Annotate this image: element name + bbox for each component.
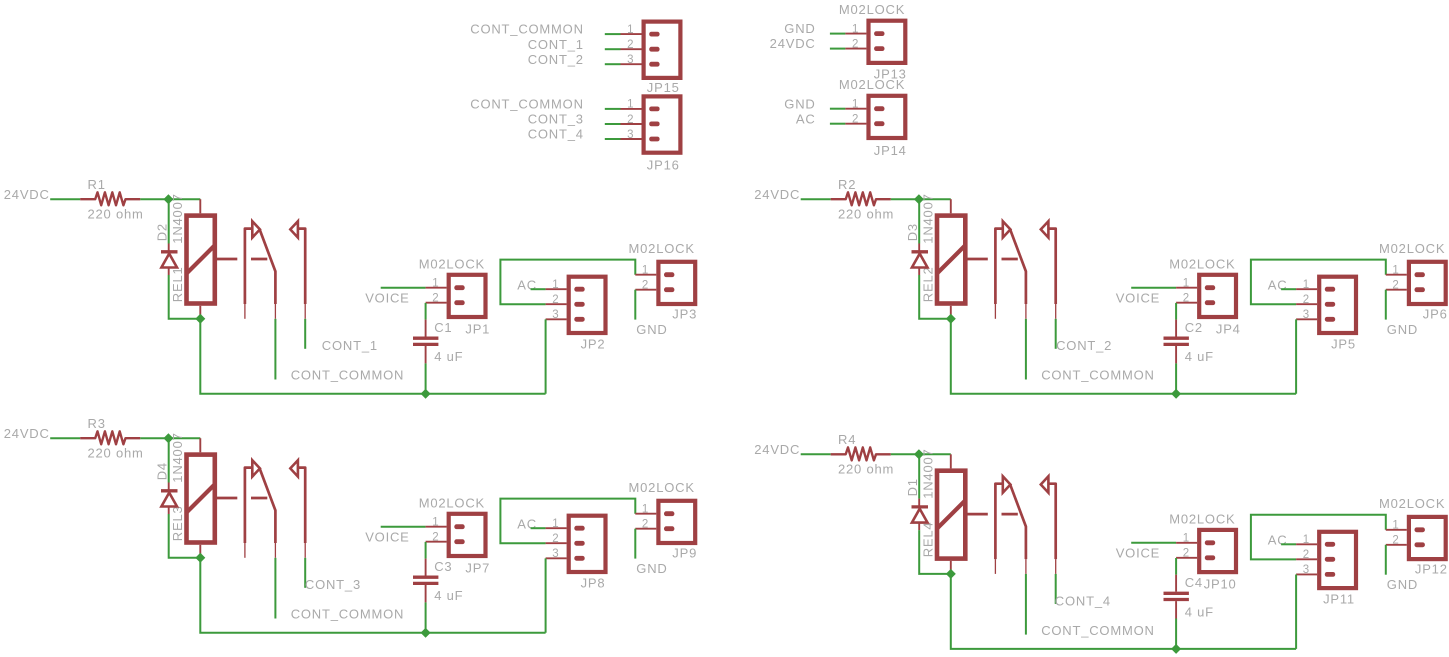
- relay REL4 coil diagonal: [937, 500, 965, 528]
- relay REL1 contact pin stub 1: [244, 304, 246, 319]
- svg-text:CONT_3: CONT_3: [305, 577, 361, 592]
- connector JP13 pin 1 lead: [845, 33, 866, 35]
- relay REL4 contact 1 arrow: [1003, 476, 1011, 492]
- svg-text:1: 1: [552, 279, 559, 291]
- relay REL2 coil pin 2: [950, 306, 952, 319]
- svg-text:2: 2: [1303, 294, 1310, 306]
- svg-text:2: 2: [1392, 280, 1399, 292]
- svg-text:REL4: REL4: [920, 522, 935, 558]
- svg-text:CONT_COMMON: CONT_COMMON: [1041, 368, 1155, 383]
- svg-text:2: 2: [642, 280, 649, 292]
- wire coil bottom to common bus: [951, 574, 1296, 649]
- wire resistor to node: [891, 198, 919, 200]
- wire diode to coil bottom: [169, 275, 201, 319]
- relay REL3 contact pin stub 3: [304, 543, 306, 558]
- wire coil bottom to common bus: [200, 319, 545, 394]
- connector JP1 pin 1 contact: [454, 285, 464, 290]
- svg-text:220 ohm: 220 ohm: [88, 206, 144, 221]
- connector JP13 pin 1 contact: [874, 31, 884, 36]
- connector JP14 pin 1 lead: [845, 108, 866, 110]
- svg-text:4 uF: 4 uF: [1185, 604, 1214, 619]
- relay REL2 contact 1 arm: [1010, 230, 1026, 304]
- connector JP4 pin 2 lead: [1176, 302, 1197, 304]
- node junction at R1/coil/diode: [163, 194, 173, 204]
- relay REL3 coil pin 2: [199, 545, 201, 558]
- relay REL4 contact pin stub 1: [994, 559, 996, 574]
- svg-text:JP16: JP16: [647, 157, 680, 172]
- wire JP7 pin 2 to capacitor C3: [425, 542, 427, 559]
- connector JP1 pin 2 contact: [454, 300, 464, 305]
- wire CONT_1 to JP15 pin 2: [605, 48, 621, 50]
- connector JP6 pin 1 contact: [1415, 272, 1425, 277]
- svg-text:2: 2: [852, 38, 859, 50]
- connector JP15 pin 3 contact: [649, 62, 659, 67]
- relay REL3 coil diagonal: [187, 484, 215, 512]
- wire VOICE to JP1 pin 1: [381, 287, 426, 289]
- junction at coil bottom: [195, 553, 205, 563]
- relay REL3 contact 1 arm: [260, 469, 276, 543]
- relay REL3 contact 1 arrow: [252, 460, 260, 476]
- diode D1 triangle: [912, 509, 928, 523]
- svg-text:GND: GND: [1387, 577, 1418, 592]
- connector JP9 pin 1 contact: [664, 511, 674, 516]
- connector JP9 pin 1 lead: [635, 513, 656, 515]
- connector JP13 pin 2 contact: [874, 46, 884, 51]
- connector JP16 pin 3 contact: [649, 137, 659, 142]
- wire GND to JP14 pin 1: [830, 108, 846, 110]
- capacitor C4 plate 1: [1164, 592, 1189, 595]
- wire CONT_COMMON to JP15 pin 1: [605, 33, 621, 35]
- connector JP2 pin 3 contact: [574, 317, 584, 322]
- svg-text:CONT_COMMON: CONT_COMMON: [291, 368, 405, 383]
- wire 24VDC to JP13 pin 2: [830, 48, 846, 50]
- connector JP10 body: [1199, 530, 1236, 572]
- wire net CONT_2 stub: [1055, 319, 1057, 349]
- diode D3 anode pin: [918, 268, 920, 276]
- svg-text:2: 2: [852, 114, 859, 126]
- relay REL1 contact 1 arrow: [252, 221, 260, 237]
- svg-text:2: 2: [432, 532, 439, 544]
- svg-text:220 ohm: 220 ohm: [88, 445, 144, 460]
- wire CONT_2 to JP15 pin 3: [605, 63, 621, 65]
- node junction at R4/coil/diode: [914, 449, 924, 459]
- svg-text:CONT_4: CONT_4: [1055, 593, 1111, 608]
- diode D2 cathode pin: [168, 244, 170, 252]
- junction capacitor C3 at bus: [421, 628, 431, 638]
- connector JP5 pin 3 lead: [1296, 318, 1317, 320]
- relay REL1 actuation dash 2: [251, 258, 267, 261]
- relay REL2 coil pin 1: [950, 199, 952, 213]
- svg-text:4 uF: 4 uF: [1185, 349, 1214, 364]
- svg-text:24VDC: 24VDC: [4, 426, 50, 441]
- connector JP11 pin 2 lead: [1296, 558, 1317, 560]
- relay REL3 contact pin stub 2: [274, 543, 276, 558]
- connector JP11 pin 3 contact: [1325, 572, 1335, 577]
- svg-text:24VDC: 24VDC: [754, 187, 800, 202]
- wire GND to JP13 pin 1: [830, 33, 846, 35]
- svg-text:1: 1: [552, 518, 559, 530]
- capacitor C3 plate 1: [413, 576, 438, 579]
- resistor R1: [80, 192, 140, 205]
- connector JP2 pin 2 contact: [574, 302, 584, 307]
- svg-text:JP15: JP15: [647, 80, 680, 95]
- relay REL3 contact pin stub 1: [244, 543, 246, 558]
- connector JP8 body: [569, 516, 606, 572]
- svg-text:CONT_COMMON: CONT_COMMON: [470, 22, 584, 37]
- svg-text:C2: C2: [1185, 320, 1203, 335]
- wire capacitor C3 to bus: [425, 602, 427, 632]
- svg-text:M02LOCK: M02LOCK: [629, 241, 695, 256]
- svg-text:CONT_1: CONT_1: [322, 338, 378, 353]
- relay REL2 contact 2 fixed: [1048, 229, 1056, 304]
- svg-text:3: 3: [627, 129, 634, 141]
- svg-text:1: 1: [432, 278, 439, 290]
- svg-text:JP14: JP14: [874, 143, 907, 158]
- relay REL4 coil pin 2: [950, 561, 952, 574]
- diode D2 triangle: [161, 254, 177, 268]
- wire 24VDC to resistor: [50, 198, 80, 200]
- svg-text:CONT_1: CONT_1: [528, 37, 584, 52]
- wire GND stub from JP6 pin 2: [1385, 290, 1387, 320]
- wire node to coil pin: [168, 437, 200, 439]
- svg-text:R3: R3: [88, 416, 106, 431]
- relay REL1 contact pin stub 3: [304, 304, 306, 319]
- svg-text:220 ohm: 220 ohm: [838, 206, 894, 221]
- capacitor C1 pin 2: [425, 346, 427, 363]
- wire bus up to JP8 pin 3: [545, 558, 547, 632]
- junction capacitor C4 at bus: [1171, 644, 1181, 654]
- svg-text:JP2: JP2: [581, 337, 606, 352]
- svg-text:CONT_COMMON: CONT_COMMON: [1041, 623, 1155, 638]
- connector JP2 pin 2 lead: [546, 303, 567, 305]
- svg-text:JP7: JP7: [465, 560, 490, 575]
- svg-text:2: 2: [1303, 549, 1310, 561]
- svg-text:JP3: JP3: [672, 306, 697, 321]
- relay REL1 actuation dash 1: [217, 258, 238, 261]
- diode D1 cathode pin: [918, 499, 920, 507]
- svg-text:R4: R4: [838, 432, 856, 447]
- junction capacitor C2 at bus: [1171, 389, 1181, 399]
- svg-text:1: 1: [1183, 533, 1190, 545]
- connector JP12 pin 1 lead: [1386, 529, 1407, 531]
- connector JP1 pin 2 lead: [426, 302, 447, 304]
- connector JP12 body: [1409, 517, 1446, 559]
- node junction at R3/coil/diode: [163, 433, 173, 443]
- relay REL2 contact pin stub 2: [1025, 304, 1027, 319]
- wire net CONT_4 stub: [1055, 574, 1057, 604]
- capacitor C1 plate 2: [413, 343, 438, 346]
- diode D2 cathode bar: [161, 250, 178, 253]
- wire net CONT_COMMON stub (REL2): [1025, 319, 1027, 380]
- wire capacitor C4 to bus: [1175, 619, 1177, 649]
- wire coil bottom to common bus: [200, 558, 545, 633]
- wire node to coil pin: [168, 198, 200, 200]
- svg-text:VOICE: VOICE: [365, 290, 409, 305]
- capacitor C4 pin 1: [1175, 575, 1177, 592]
- relay REL4 actuation dash 1: [967, 513, 988, 516]
- svg-text:JP9: JP9: [672, 545, 697, 560]
- relay REL1 contact pin stub 2: [274, 304, 276, 319]
- svg-text:JP1: JP1: [465, 321, 490, 336]
- connector JP4 pin 1 contact: [1205, 285, 1215, 290]
- svg-text:D3: D3: [905, 223, 920, 241]
- wire diode to coil bottom: [919, 530, 951, 574]
- wire AC to JP14 pin 2: [830, 123, 846, 125]
- relay REL2 contact 1 arrow: [1003, 221, 1011, 237]
- diode D3 cathode pin: [918, 244, 920, 252]
- svg-text:VOICE: VOICE: [365, 529, 409, 544]
- svg-text:2: 2: [627, 114, 634, 126]
- svg-text:2: 2: [1183, 548, 1190, 560]
- svg-text:REL1: REL1: [170, 266, 185, 302]
- svg-text:3: 3: [552, 548, 559, 560]
- relay REL2 actuation dash 1: [967, 258, 988, 261]
- svg-text:CONT_2: CONT_2: [528, 52, 584, 67]
- capacitor C1 plate 1: [413, 337, 438, 340]
- svg-text:JP5: JP5: [1331, 337, 1356, 352]
- relay REL4 contact pin stub 2: [1025, 559, 1027, 574]
- connector JP1 pin 1 lead: [426, 287, 447, 289]
- svg-text:1: 1: [642, 265, 649, 277]
- svg-text:1N4007: 1N4007: [920, 193, 935, 243]
- resistor R3: [80, 431, 140, 444]
- relay REL1 contact 1 arm: [260, 230, 276, 304]
- connector JP14 pin 2 lead: [845, 123, 866, 125]
- connector JP13 body: [869, 21, 906, 63]
- svg-text:JP11: JP11: [1323, 592, 1355, 607]
- relay REL4 coil body: [937, 471, 965, 559]
- connector JP5 pin 2 contact: [1325, 302, 1335, 307]
- svg-text:M02LOCK: M02LOCK: [419, 257, 485, 272]
- relay REL1 coil diagonal: [187, 245, 215, 273]
- diode D4 triangle: [161, 493, 177, 507]
- relay REL4 coil pin 1: [950, 454, 952, 468]
- diode D3 cathode bar: [912, 250, 929, 253]
- svg-text:3: 3: [1303, 564, 1310, 576]
- svg-text:JP10: JP10: [1204, 577, 1237, 592]
- svg-text:JP6: JP6: [1423, 306, 1448, 321]
- relay REL3 coil body: [187, 455, 215, 543]
- wire capacitor C1 to bus: [425, 363, 427, 393]
- wire node to diode D1: [918, 454, 920, 498]
- connector JP11 pin 1 contact: [1325, 542, 1335, 547]
- connector JP2 pin 1 contact: [574, 287, 584, 292]
- svg-text:1: 1: [1303, 279, 1310, 291]
- wire node to diode D3: [918, 199, 920, 243]
- connector JP6 body: [1409, 262, 1446, 304]
- connector JP4 body: [1199, 275, 1236, 317]
- connector JP10 pin 1 lead: [1176, 542, 1197, 544]
- wire net CONT_1 stub: [304, 319, 306, 349]
- capacitor C2 pin 2: [1175, 346, 1177, 363]
- connector JP13 pin 2 lead: [845, 48, 866, 50]
- svg-text:CONT_3: CONT_3: [528, 112, 584, 127]
- junction capacitor C1 at bus: [421, 389, 431, 399]
- connector JP16 pin 2 lead: [621, 123, 642, 125]
- relay REL2 contact pin stub 3: [1055, 304, 1057, 319]
- capacitor C2 plate 2: [1164, 343, 1189, 346]
- diode D4 cathode bar: [161, 489, 178, 492]
- relay REL3 contact 2 fixed: [298, 468, 306, 543]
- svg-text:1: 1: [432, 517, 439, 529]
- wire resistor to node: [140, 198, 168, 200]
- connector JP8 pin 1 lead: [546, 527, 567, 529]
- diode D4 anode pin: [168, 507, 170, 515]
- wire JP10 pin 2 to capacitor C4: [1175, 558, 1177, 575]
- connector JP1 body: [449, 275, 486, 317]
- wire 24VDC to resistor: [801, 198, 831, 200]
- connector JP14 pin 1 contact: [874, 106, 884, 111]
- relay REL3 coil pin 1: [199, 438, 201, 452]
- svg-text:M02LOCK: M02LOCK: [1379, 496, 1445, 511]
- connector JP15 pin 3 lead: [621, 63, 642, 65]
- connector JP4 pin 1 lead: [1176, 287, 1197, 289]
- connector JP10 pin 1 contact: [1205, 540, 1215, 545]
- diode D4 cathode pin: [168, 483, 170, 491]
- svg-text:D1: D1: [905, 478, 920, 496]
- relay REL2 contact 2 arrow: [1041, 221, 1049, 237]
- wire capacitor C2 to bus: [1175, 363, 1177, 393]
- wire coil bottom to common bus: [951, 319, 1296, 394]
- wire CONT_COMMON to JP16 pin 1: [605, 108, 621, 110]
- capacitor C3 pin 2: [425, 585, 427, 602]
- svg-text:M02LOCK: M02LOCK: [629, 480, 695, 495]
- connector JP16 pin 1 lead: [621, 108, 642, 110]
- connector JP5 pin 3 contact: [1325, 317, 1335, 322]
- connector JP7 pin 1 lead: [426, 526, 447, 528]
- connector JP11 pin 2 contact: [1325, 557, 1335, 562]
- wire AC to JP2 pin 1: [531, 288, 546, 290]
- svg-text:D2: D2: [154, 223, 169, 241]
- connector JP16 body: [644, 96, 681, 152]
- diode D3 triangle: [912, 254, 928, 268]
- svg-text:2: 2: [552, 533, 559, 545]
- svg-text:1N4007: 1N4007: [170, 193, 185, 243]
- svg-text:R2: R2: [838, 177, 856, 192]
- svg-text:REL2: REL2: [920, 266, 935, 302]
- svg-text:220 ohm: 220 ohm: [838, 461, 894, 476]
- svg-text:4 uF: 4 uF: [434, 588, 463, 603]
- wire AC loop to JP12: [1251, 515, 1386, 560]
- relay REL2 actuation dash 2: [1002, 258, 1018, 261]
- svg-text:CONT_2: CONT_2: [1056, 338, 1112, 353]
- wire AC loop to JP3: [500, 260, 635, 305]
- relay REL3 actuation dash 1: [217, 497, 238, 500]
- relay REL1 coil pin 2: [199, 306, 201, 319]
- junction at coil bottom: [946, 314, 956, 324]
- relay REL2 contact 1 fixed: [995, 229, 1002, 304]
- connector JP7 pin 2 lead: [426, 541, 447, 543]
- connector JP3 pin 1 lead: [635, 274, 656, 276]
- svg-text:VOICE: VOICE: [1116, 546, 1160, 561]
- wire AC loop to JP6: [1251, 260, 1386, 305]
- svg-text:VOICE: VOICE: [1116, 290, 1160, 305]
- wire VOICE to JP7 pin 1: [381, 526, 426, 528]
- svg-text:1: 1: [1392, 520, 1399, 532]
- svg-text:CONT_COMMON: CONT_COMMON: [470, 97, 584, 112]
- connector JP5 pin 1 lead: [1296, 288, 1317, 290]
- relay REL2 coil body: [937, 216, 965, 304]
- connector JP7 pin 1 contact: [454, 524, 464, 529]
- svg-text:GND: GND: [784, 96, 815, 111]
- connector JP12 pin 2 contact: [1415, 542, 1425, 547]
- wire 24VDC to resistor: [801, 453, 831, 455]
- connector JP3 pin 2 lead: [635, 289, 656, 291]
- connector JP9 pin 2 lead: [635, 528, 656, 530]
- svg-text:24VDC: 24VDC: [4, 187, 50, 202]
- svg-text:1: 1: [1183, 278, 1190, 290]
- svg-text:2: 2: [642, 519, 649, 531]
- wire JP4 pin 2 to capacitor C2: [1175, 303, 1177, 320]
- svg-text:2: 2: [552, 294, 559, 306]
- svg-text:R1: R1: [88, 177, 106, 192]
- connector JP6 pin 2 lead: [1386, 289, 1407, 291]
- svg-text:REL3: REL3: [170, 505, 185, 541]
- connector JP16 pin 3 lead: [621, 138, 642, 140]
- connector JP3 pin 2 contact: [664, 287, 674, 292]
- svg-text:24VDC: 24VDC: [754, 442, 800, 457]
- svg-text:3: 3: [1303, 309, 1310, 321]
- svg-text:M02LOCK: M02LOCK: [839, 2, 905, 17]
- relay REL2 contact pin stub 1: [994, 304, 996, 319]
- relay REL4 contact 1 arm: [1010, 485, 1026, 559]
- diode D1 anode pin: [918, 523, 920, 531]
- wire diode to coil bottom: [169, 514, 201, 558]
- diode D1 cathode bar: [912, 505, 929, 508]
- connector JP5 body: [1319, 277, 1356, 333]
- svg-text:M02LOCK: M02LOCK: [1169, 257, 1235, 272]
- wire GND stub from JP3 pin 2: [634, 290, 636, 320]
- relay REL1 coil body: [187, 216, 215, 304]
- wire node to coil pin: [919, 198, 951, 200]
- svg-text:JP8: JP8: [581, 576, 606, 591]
- svg-text:1: 1: [627, 24, 634, 36]
- connector JP8 pin 3 lead: [546, 557, 567, 559]
- relay REL1 contact 1 fixed: [245, 229, 252, 304]
- svg-text:GND: GND: [636, 561, 667, 576]
- svg-text:1: 1: [642, 504, 649, 516]
- svg-text:1: 1: [1303, 534, 1310, 546]
- wire bus up to JP2 pin 3: [545, 319, 547, 393]
- wire node to diode D4: [168, 438, 170, 482]
- wire net CONT_COMMON stub (REL3): [274, 558, 276, 619]
- connector JP12 pin 1 contact: [1415, 527, 1425, 532]
- svg-text:2: 2: [1392, 535, 1399, 547]
- svg-text:M02LOCK: M02LOCK: [1169, 512, 1235, 527]
- connector JP16 pin 1 contact: [649, 107, 659, 112]
- svg-text:3: 3: [627, 54, 634, 66]
- resistor R2: [831, 192, 891, 205]
- svg-text:JP4: JP4: [1216, 321, 1241, 336]
- capacitor C3 plate 2: [413, 582, 438, 585]
- wire CONT_4 to JP16 pin 3: [605, 138, 621, 140]
- relay REL4 contact 2 fixed: [1048, 484, 1056, 559]
- svg-text:2: 2: [432, 293, 439, 305]
- wire bus up to JP11 pin 3: [1295, 575, 1297, 649]
- svg-text:GND: GND: [784, 21, 815, 36]
- connector JP10 pin 2 contact: [1205, 555, 1215, 560]
- connector JP15 pin 2 lead: [621, 48, 642, 50]
- wire JP1 pin 2 to capacitor C1: [425, 303, 427, 320]
- svg-text:M02LOCK: M02LOCK: [1379, 241, 1445, 256]
- wire GND stub from JP12 pin 2: [1385, 545, 1387, 575]
- connector JP2 pin 1 lead: [546, 288, 567, 290]
- connector JP8 pin 3 contact: [574, 556, 584, 561]
- relay REL3 actuation dash 2: [251, 497, 267, 500]
- wire VOICE to JP10 pin 1: [1131, 542, 1176, 544]
- relay REL4 contact 2 arrow: [1041, 476, 1049, 492]
- connector JP3 body: [658, 262, 695, 304]
